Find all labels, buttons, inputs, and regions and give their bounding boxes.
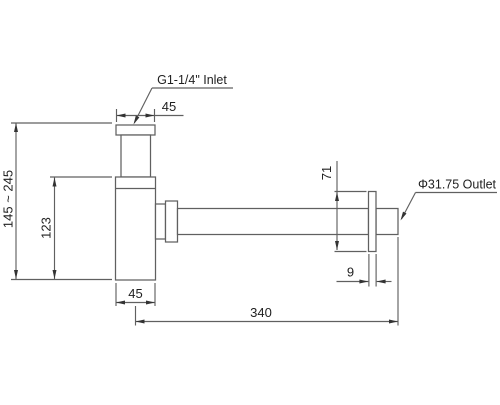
svg-text:123: 123 [39,217,54,239]
svg-text:145 ~ 245: 145 ~ 245 [1,170,16,228]
svg-text:71: 71 [319,166,334,180]
svg-text:45: 45 [162,99,176,114]
svg-text:Φ31.75 Outlet: Φ31.75 Outlet [418,178,497,192]
svg-text:9: 9 [347,265,354,280]
svg-text:45: 45 [128,286,142,301]
svg-text:G1-1/4" Inlet: G1-1/4" Inlet [157,73,227,87]
svg-text:340: 340 [250,305,272,320]
